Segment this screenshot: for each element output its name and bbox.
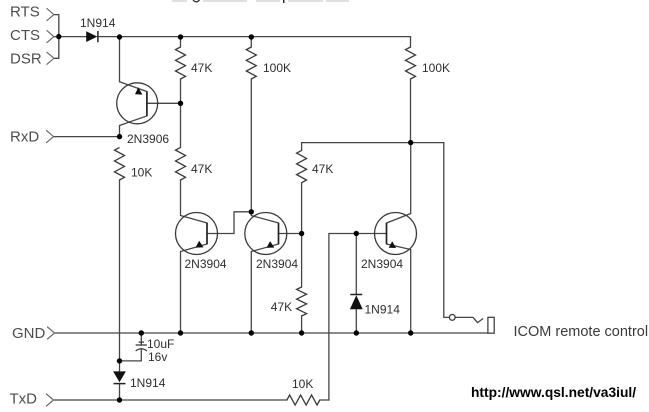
svg-text:1N914: 1N914 (80, 16, 116, 30)
svg-text:ICOM remote control: ICOM remote control (514, 324, 649, 340)
svg-text:47K: 47K (271, 300, 292, 314)
svg-text:2N3904: 2N3904 (256, 257, 298, 271)
svg-text:47K: 47K (191, 61, 212, 75)
svg-text:DSR: DSR (10, 51, 42, 68)
svg-text:1N914: 1N914 (130, 376, 166, 390)
svg-text:RxD: RxD (10, 129, 39, 146)
svg-text:100K: 100K (422, 61, 450, 75)
svg-text:RTS: RTS (10, 4, 40, 21)
svg-text:10K: 10K (292, 377, 313, 391)
svg-text:http://www.qsl.net/va3iul/: http://www.qsl.net/va3iul/ (471, 385, 636, 400)
svg-text:47K: 47K (312, 162, 333, 176)
svg-text:1N914: 1N914 (365, 303, 401, 317)
svg-text:10uF: 10uF (147, 337, 174, 351)
svg-text:2N3906: 2N3906 (127, 132, 169, 146)
svg-text:10K: 10K (131, 166, 152, 180)
svg-text:16v: 16v (148, 350, 167, 364)
svg-text:2N3904: 2N3904 (185, 257, 227, 271)
svg-text:100K: 100K (263, 61, 291, 75)
svg-text:47K: 47K (191, 162, 212, 176)
svg-text:TxD: TxD (10, 391, 38, 408)
svg-text:GND: GND (12, 325, 46, 342)
svg-text:CTS: CTS (10, 27, 40, 44)
svg-text:2N3904: 2N3904 (361, 257, 403, 271)
